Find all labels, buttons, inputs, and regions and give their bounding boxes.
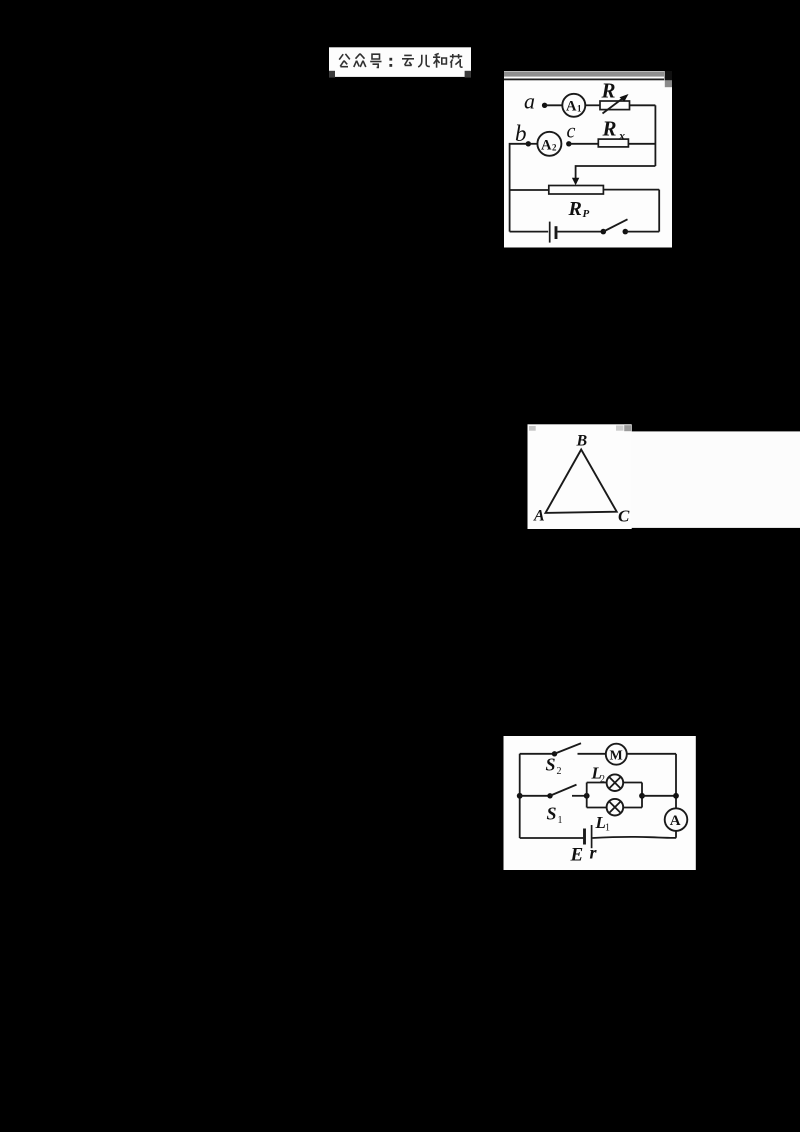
wire A1 to R bbox=[585, 104, 600, 106]
switch S1 bbox=[547, 785, 576, 799]
svg-text:c: c bbox=[567, 121, 576, 143]
battery cell bbox=[550, 222, 556, 243]
ammeter A bbox=[665, 808, 688, 831]
lamp bank bottom branch bbox=[587, 807, 607, 809]
right rail 2 down bbox=[658, 190, 660, 232]
ammeter A1 bbox=[562, 94, 585, 117]
svg-text:M: M bbox=[610, 749, 623, 764]
vertex label C bbox=[618, 507, 630, 526]
wire c to Rx bbox=[569, 143, 599, 145]
lamp bank left node bbox=[584, 793, 590, 799]
svg-text:C: C bbox=[618, 507, 630, 526]
svg-text:S: S bbox=[546, 755, 556, 775]
node c label bbox=[567, 121, 576, 143]
label r bbox=[590, 843, 598, 863]
svg-text:A: A bbox=[670, 813, 681, 829]
svg-text:x: x bbox=[618, 129, 625, 143]
lamp L1 bbox=[607, 799, 624, 816]
svg-text:R: R bbox=[602, 117, 617, 141]
header text glyph 众 bbox=[354, 54, 366, 67]
header text glyph 儿 bbox=[418, 55, 430, 67]
vertex label A bbox=[533, 508, 545, 525]
node c dot bbox=[566, 141, 571, 146]
resistor Rx body bbox=[598, 139, 628, 147]
header text glyph 云 bbox=[402, 55, 414, 65]
right rail down bbox=[654, 105, 656, 166]
wire to S1 bbox=[520, 795, 550, 797]
label E bbox=[570, 845, 584, 866]
svg-text:a: a bbox=[524, 89, 535, 114]
node a dot bbox=[542, 103, 547, 108]
jog wire right rail to wiper bbox=[572, 166, 656, 185]
motor M bbox=[606, 744, 627, 765]
wire lamp bank to right rail bbox=[642, 795, 676, 797]
bottom wire to battery bbox=[510, 231, 549, 233]
svg-text:1: 1 bbox=[577, 104, 582, 114]
potentiometer Rp body bbox=[549, 186, 604, 195]
svg-text:2: 2 bbox=[557, 766, 562, 777]
left rail bbox=[510, 144, 529, 232]
header text glyph 公 bbox=[339, 54, 350, 67]
label L1 bbox=[595, 813, 611, 834]
lamp bank right node bbox=[639, 793, 645, 799]
header text glyph 号 bbox=[370, 54, 381, 67]
header text glyph ： bbox=[389, 58, 392, 67]
wire battery to ammeter bbox=[592, 837, 676, 838]
wire Rx to right rail bbox=[628, 143, 655, 145]
svg-text:A: A bbox=[566, 99, 577, 115]
wire left rail to Rp bbox=[510, 189, 549, 191]
svg-text:S: S bbox=[547, 804, 557, 824]
left rail c2 bbox=[519, 754, 521, 838]
wire switch to right rail bbox=[625, 231, 659, 233]
svg-text:A: A bbox=[533, 508, 545, 525]
switch S2 bbox=[552, 743, 581, 756]
wire R to right rail bbox=[630, 104, 656, 106]
svg-text:B: B bbox=[576, 433, 588, 450]
switch S bbox=[601, 219, 629, 234]
svg-text:P: P bbox=[583, 208, 590, 220]
header white panel bbox=[329, 47, 471, 77]
label S1 bbox=[547, 804, 563, 827]
label R bbox=[601, 79, 616, 103]
header text glyph 花 bbox=[450, 54, 463, 68]
svg-text:b: b bbox=[515, 121, 527, 146]
svg-text:1: 1 bbox=[558, 815, 563, 826]
top wire to S2 bbox=[520, 753, 555, 755]
vertex label B bbox=[576, 433, 588, 450]
svg-text:R: R bbox=[601, 79, 616, 103]
wire motor to right rail bbox=[627, 753, 676, 755]
node a label bbox=[524, 89, 535, 114]
lamp bank top right bbox=[623, 782, 642, 784]
svg-text:2: 2 bbox=[552, 143, 557, 153]
wire a to A1 bbox=[546, 104, 562, 106]
label Rx bbox=[602, 117, 626, 143]
lamp L2 bbox=[607, 774, 624, 791]
label Rp bbox=[568, 198, 590, 220]
svg-text:r: r bbox=[590, 843, 598, 863]
ammeter A2 bbox=[537, 132, 561, 156]
wire battery to switch bbox=[558, 231, 602, 233]
label S2 bbox=[546, 755, 562, 778]
wire b to A2 bbox=[528, 143, 537, 145]
wire S1 to lamp bank bbox=[572, 795, 587, 797]
wire S2 to motor bbox=[578, 753, 607, 755]
right rail node bbox=[673, 793, 679, 799]
rheostat R arrow bbox=[603, 94, 629, 114]
label L2 bbox=[591, 764, 606, 786]
svg-text:E: E bbox=[570, 845, 584, 866]
node b label bbox=[515, 121, 527, 146]
header text glyph 和 bbox=[433, 54, 446, 68]
svg-text:A: A bbox=[541, 138, 552, 154]
svg-text:2: 2 bbox=[600, 774, 605, 785]
lamp bank right side bbox=[641, 783, 643, 808]
lamp bank top branch bbox=[587, 782, 607, 784]
battery E r bbox=[585, 825, 592, 848]
svg-text:1: 1 bbox=[605, 823, 610, 834]
svg-text:R: R bbox=[568, 198, 582, 220]
triangle ABC bbox=[546, 450, 617, 513]
lamp bank left side bbox=[586, 783, 588, 808]
rheostat R body bbox=[600, 101, 630, 110]
node b dot bbox=[526, 141, 531, 146]
lamp bank bottom right bbox=[623, 807, 642, 809]
node left junction bbox=[517, 793, 523, 799]
right rail top bbox=[675, 754, 677, 809]
wire Rp to right bbox=[603, 189, 659, 191]
bottom wire left bbox=[520, 837, 584, 839]
wire ammeter to bottom bbox=[675, 831, 677, 838]
